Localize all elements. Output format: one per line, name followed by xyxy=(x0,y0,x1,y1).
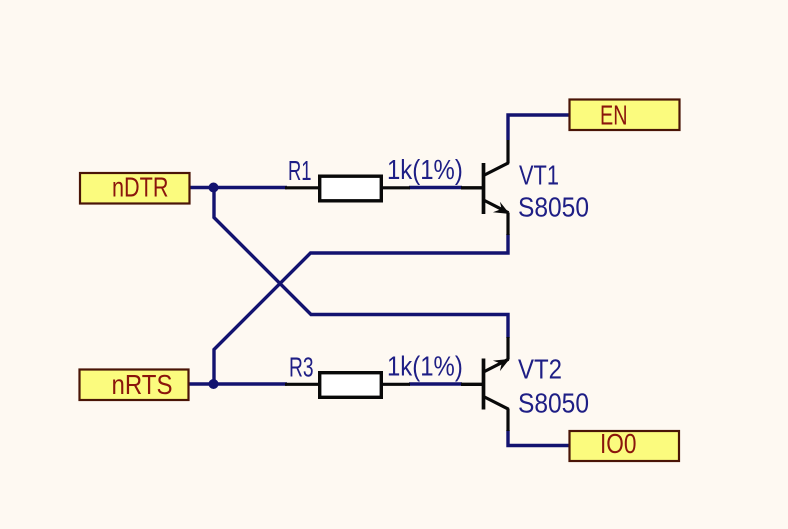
net port nDTR xyxy=(80,172,190,204)
svg-text:nDTR: nDTR xyxy=(112,172,169,203)
net port nRTS xyxy=(80,369,189,400)
svg-text:VT1: VT1 xyxy=(519,160,559,191)
svg-text:IO0: IO0 xyxy=(600,428,637,459)
wire R3 to VT2 base xyxy=(409,382,462,385)
svg-text:EN: EN xyxy=(600,100,628,131)
label VT2 xyxy=(518,354,562,385)
net port IO0 xyxy=(570,428,680,461)
junction node at nDTR xyxy=(209,183,219,193)
value 1k(1%) for R3 xyxy=(387,350,463,381)
value S8050 for VT2 xyxy=(518,388,589,419)
svg-text:R3: R3 xyxy=(289,351,314,382)
svg-text:nRTS: nRTS xyxy=(112,369,173,400)
wire R1 to VT1 base xyxy=(409,186,462,189)
label VT1 xyxy=(519,160,559,191)
transistor VT1 xyxy=(461,140,510,235)
svg-text:1k(1%): 1k(1%) xyxy=(387,154,463,185)
resistor R1 xyxy=(285,176,410,201)
svg-text:VT2: VT2 xyxy=(518,354,562,385)
wire nDTR to junction and R1 xyxy=(189,186,287,189)
value 1k(1%) for R1 xyxy=(387,154,463,185)
wire VT2 collector to IO0 xyxy=(508,430,570,446)
svg-text:S8050: S8050 xyxy=(518,388,589,419)
resistor R3 xyxy=(285,373,410,398)
wire VT1 collector to EN xyxy=(508,115,570,140)
svg-text:1k(1%): 1k(1%) xyxy=(387,350,463,381)
junction node at nRTS xyxy=(209,379,219,389)
value S8050 for VT1 xyxy=(518,192,589,223)
transistor VT2 xyxy=(461,337,510,431)
label R3 xyxy=(289,351,314,382)
svg-text:S8050: S8050 xyxy=(518,192,589,223)
label R1 xyxy=(288,155,312,186)
net port EN xyxy=(570,100,680,131)
wire VT1 emitter to nRTS junction xyxy=(214,234,508,384)
wire nRTS to junction and R3 xyxy=(188,382,287,385)
wire VT2 emitter to nDTR junction xyxy=(214,188,508,339)
svg-text:R1: R1 xyxy=(288,155,312,186)
